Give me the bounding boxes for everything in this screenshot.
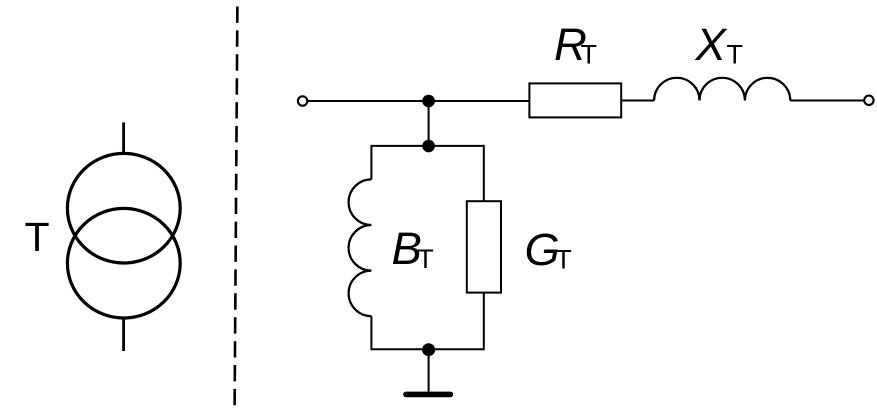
svg-text:T: T	[581, 40, 598, 70]
svg-text:T: T	[25, 214, 50, 260]
svg-text:T: T	[555, 245, 572, 275]
svg-text:X: X	[695, 19, 728, 70]
svg-text:T: T	[417, 244, 434, 274]
svg-text:T: T	[727, 40, 744, 70]
